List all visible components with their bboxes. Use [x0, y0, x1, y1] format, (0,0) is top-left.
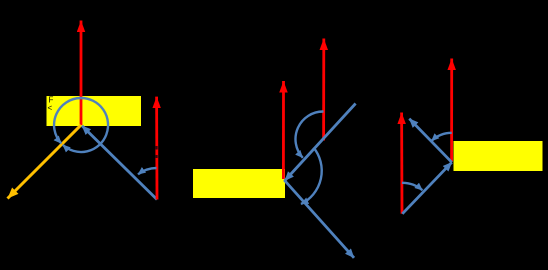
north arrow N1	[80, 21, 83, 126]
north arrow N2	[155, 97, 158, 200]
vector F orange	[8, 125, 82, 199]
angle arc upper at D	[295, 111, 323, 157]
vector C continuation blue	[284, 180, 354, 258]
north arrow N4	[322, 39, 325, 141]
yellow highlight box 3	[454, 141, 543, 171]
angle arc lower at C	[301, 148, 322, 205]
reflex arc left at A	[54, 98, 81, 143]
north arrow N3	[282, 81, 285, 179]
vector R1 blue up-right	[402, 162, 452, 214]
yellow highlight box 2	[193, 169, 285, 198]
reflex arc right at A	[63, 98, 108, 152]
north arrow N5	[400, 113, 403, 214]
dash marks on N2	[155, 146, 158, 150]
angle arc top at J	[432, 133, 452, 141]
angle arc bottom at P	[402, 183, 422, 190]
yellow highlight box 1	[47, 96, 142, 126]
vector C incoming blue	[285, 104, 356, 181]
vector B1 blue into A	[82, 126, 157, 200]
angle arc at B	[138, 168, 157, 174]
svg-text:<: <	[48, 104, 53, 113]
north arrow N6	[450, 59, 453, 162]
vector R2 blue up-left	[409, 119, 452, 163]
